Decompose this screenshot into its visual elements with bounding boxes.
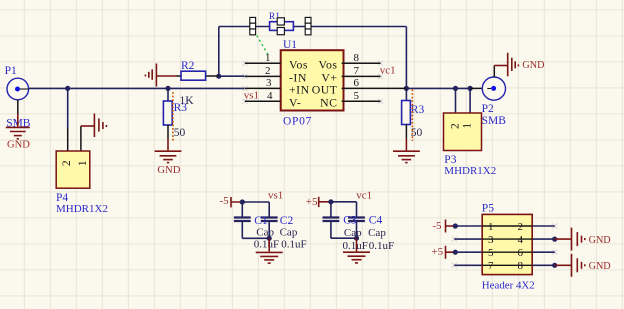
svg-text:+5: +5 bbox=[306, 196, 318, 208]
svg-text:5: 5 bbox=[488, 247, 494, 259]
capacitor C1 bbox=[234, 218, 251, 222]
svg-text:1: 1 bbox=[77, 160, 89, 166]
connector P4 MHDR1X2 bbox=[56, 126, 108, 215]
junction node on main wire at P4 drop bbox=[65, 86, 70, 91]
svg-text:Cap: Cap bbox=[280, 227, 298, 239]
power port +5 (header) bbox=[431, 246, 455, 259]
wire drops to P3 pins bbox=[456, 88, 471, 113]
svg-text:C1: C1 bbox=[254, 215, 268, 227]
svg-text:P1: P1 bbox=[5, 65, 17, 77]
connector P3 MHDR1X2 bbox=[444, 113, 497, 177]
junction dot header pin4 wire bbox=[552, 237, 557, 242]
wire vertical right down to output net bbox=[405, 27, 407, 89]
svg-text:C4: C4 bbox=[369, 215, 383, 227]
wire drop to R3 right bbox=[405, 88, 407, 100]
svg-text:GND: GND bbox=[589, 261, 611, 272]
svg-text:Header 4X2: Header 4X2 bbox=[482, 280, 535, 292]
svg-text:1: 1 bbox=[462, 123, 474, 129]
svg-text:GND: GND bbox=[157, 165, 180, 176]
ground earth under R3 right bbox=[393, 139, 420, 163]
capacitor C4 bbox=[348, 218, 365, 222]
svg-text:vs1: vs1 bbox=[268, 190, 283, 202]
power port -5 (header) bbox=[432, 220, 455, 233]
svg-text:U1: U1 bbox=[283, 39, 297, 51]
svg-text:50: 50 bbox=[174, 127, 186, 139]
svg-text:4: 4 bbox=[518, 234, 524, 246]
resistor R2 bbox=[177, 60, 219, 80]
op-amp U1 OP07 bbox=[245, 39, 407, 127]
junction node at R2 right / vertical bbox=[216, 74, 221, 79]
diff marker dotted line at R3 mid bbox=[172, 92, 174, 141]
svg-text:8: 8 bbox=[354, 52, 360, 64]
resistor R1 with selection handles bbox=[250, 12, 311, 35]
svg-text:6: 6 bbox=[518, 247, 524, 259]
svg-text:Cap: Cap bbox=[368, 227, 386, 239]
wire drop to R3 mid bbox=[167, 88, 169, 101]
svg-text:4: 4 bbox=[267, 90, 273, 102]
connector P2 SMB bbox=[471, 66, 507, 127]
svg-text:5: 5 bbox=[354, 90, 360, 102]
svg-text:vc1: vc1 bbox=[356, 189, 372, 201]
svg-text:6: 6 bbox=[354, 77, 360, 89]
svg-text:P5: P5 bbox=[482, 203, 494, 215]
svg-text:3: 3 bbox=[488, 234, 494, 246]
connector P1 SMB bbox=[5, 65, 31, 129]
svg-text:Vos: Vos bbox=[289, 57, 308, 71]
U1 pin numbers 1-8 bbox=[265, 52, 360, 102]
svg-text:2: 2 bbox=[265, 65, 271, 77]
svg-text:vc1: vc1 bbox=[380, 65, 396, 77]
svg-text:V-: V- bbox=[289, 95, 301, 109]
svg-text:-5: -5 bbox=[432, 220, 442, 232]
svg-text:0.1uF: 0.1uF bbox=[343, 240, 368, 252]
svg-text:R3: R3 bbox=[174, 102, 188, 114]
wire top row right segment from R1 bbox=[293, 26, 406, 28]
wire main horizontal net from P1 to U1 pin3 bbox=[29, 87, 245, 89]
svg-text:NC: NC bbox=[320, 95, 337, 109]
junction node output net bbox=[404, 86, 409, 91]
junction dot header pin8 wire bbox=[552, 263, 557, 268]
ground power port header row2 bbox=[555, 228, 585, 251]
U1 pin lines 1-8 bbox=[245, 63, 407, 101]
svg-text:8: 8 bbox=[518, 260, 524, 272]
svg-text:MHDR1X2: MHDR1X2 bbox=[56, 203, 108, 215]
capacitor C3 bbox=[323, 218, 340, 222]
resistor R3 (right) bbox=[402, 101, 425, 139]
ground power port at P2 (rotated earth pointing right) bbox=[494, 53, 518, 77]
svg-text:7: 7 bbox=[488, 260, 494, 272]
ground power port at P4 (rotated earth pointing right) bbox=[81, 114, 107, 138]
junction dot header pin1 bbox=[453, 223, 458, 228]
svg-text:Vos: Vos bbox=[319, 57, 338, 71]
junction node on main wire at R3 mid drop bbox=[165, 86, 170, 91]
wire top row left segment to R1 bbox=[219, 26, 270, 28]
svg-text:2: 2 bbox=[450, 123, 462, 129]
net vs1 cap wires bbox=[242, 202, 269, 238]
svg-text:3: 3 bbox=[266, 77, 272, 89]
junction dot at C4 bottom bbox=[354, 236, 359, 241]
svg-text:OP07: OP07 bbox=[283, 116, 312, 128]
junction dot at C3 top bbox=[328, 199, 333, 204]
wire drop to P4 bbox=[67, 88, 69, 128]
svg-text:C2: C2 bbox=[280, 215, 294, 227]
svg-text:P3: P3 bbox=[444, 154, 456, 166]
svg-text:+5: +5 bbox=[431, 246, 443, 258]
svg-text:MHDR1X2: MHDR1X2 bbox=[444, 165, 496, 177]
no-ERC open end markers bbox=[242, 61, 557, 268]
ground earth under R3 mid bbox=[155, 139, 182, 163]
svg-text:GND: GND bbox=[589, 235, 611, 246]
svg-text:2: 2 bbox=[61, 160, 73, 166]
wire output net to P2 bbox=[406, 87, 473, 89]
capacitor C2 bbox=[261, 218, 278, 222]
ground earth under P1 bbox=[6, 114, 30, 139]
svg-text:+IN: +IN bbox=[289, 83, 310, 97]
wire from junction to U1 pin2 bbox=[219, 75, 245, 77]
svg-text:2: 2 bbox=[518, 221, 524, 233]
diff marker dotted line at R3 right bbox=[411, 90, 413, 142]
svg-text:Cap: Cap bbox=[256, 227, 274, 239]
svg-text:GND: GND bbox=[522, 60, 544, 71]
green guide dashed line bbox=[257, 36, 269, 56]
svg-text:Cap: Cap bbox=[344, 227, 362, 239]
junction dot header pin5 bbox=[453, 250, 458, 255]
svg-text:1: 1 bbox=[265, 52, 271, 64]
power port +5 (caps) bbox=[306, 196, 331, 208]
junction dot at C2 bottom bbox=[267, 236, 272, 241]
svg-text:1: 1 bbox=[488, 221, 494, 233]
svg-text:C3: C3 bbox=[343, 215, 357, 227]
svg-text:R2: R2 bbox=[181, 60, 195, 72]
svg-text:R3: R3 bbox=[411, 104, 425, 116]
power port -5 (caps) bbox=[220, 195, 243, 207]
ground power port header row4 bbox=[555, 254, 585, 277]
svg-text:7: 7 bbox=[354, 65, 360, 77]
value label 50 (R3 mid) bbox=[174, 127, 186, 139]
ground earth under C4 bbox=[343, 238, 370, 263]
P5 pin lines through body bbox=[482, 226, 532, 265]
svg-text:vs1: vs1 bbox=[244, 90, 259, 102]
junction dot at C1 top bbox=[240, 199, 245, 204]
svg-text:P2: P2 bbox=[482, 103, 494, 115]
ground power port left of R2 (rotated earth) bbox=[145, 64, 176, 87]
svg-text:GND: GND bbox=[7, 139, 30, 150]
ground earth under C2 bbox=[256, 238, 283, 263]
wire vertical R2 junction up to R1 row bbox=[218, 27, 220, 77]
P5 pin numbers 1-8 bbox=[488, 221, 524, 272]
junction nodes at P3 pins bbox=[453, 86, 458, 91]
resistor R3 (middle) bbox=[163, 101, 187, 139]
U1 pin names Vos -IN +IN V- Vos V+ OUT NC bbox=[289, 57, 338, 109]
svg-text:0.1uF: 0.1uF bbox=[369, 240, 394, 252]
value label 50 (R3 right) bbox=[411, 127, 423, 139]
net vc1 cap wires bbox=[331, 202, 357, 238]
svg-text:-5: -5 bbox=[220, 195, 230, 207]
svg-text:SMB: SMB bbox=[482, 115, 507, 127]
svg-text:OUT: OUT bbox=[312, 83, 338, 97]
header P5 bbox=[454, 203, 554, 292]
svg-text:0.1uF: 0.1uF bbox=[254, 238, 279, 250]
svg-text:0.1uF: 0.1uF bbox=[281, 238, 306, 250]
